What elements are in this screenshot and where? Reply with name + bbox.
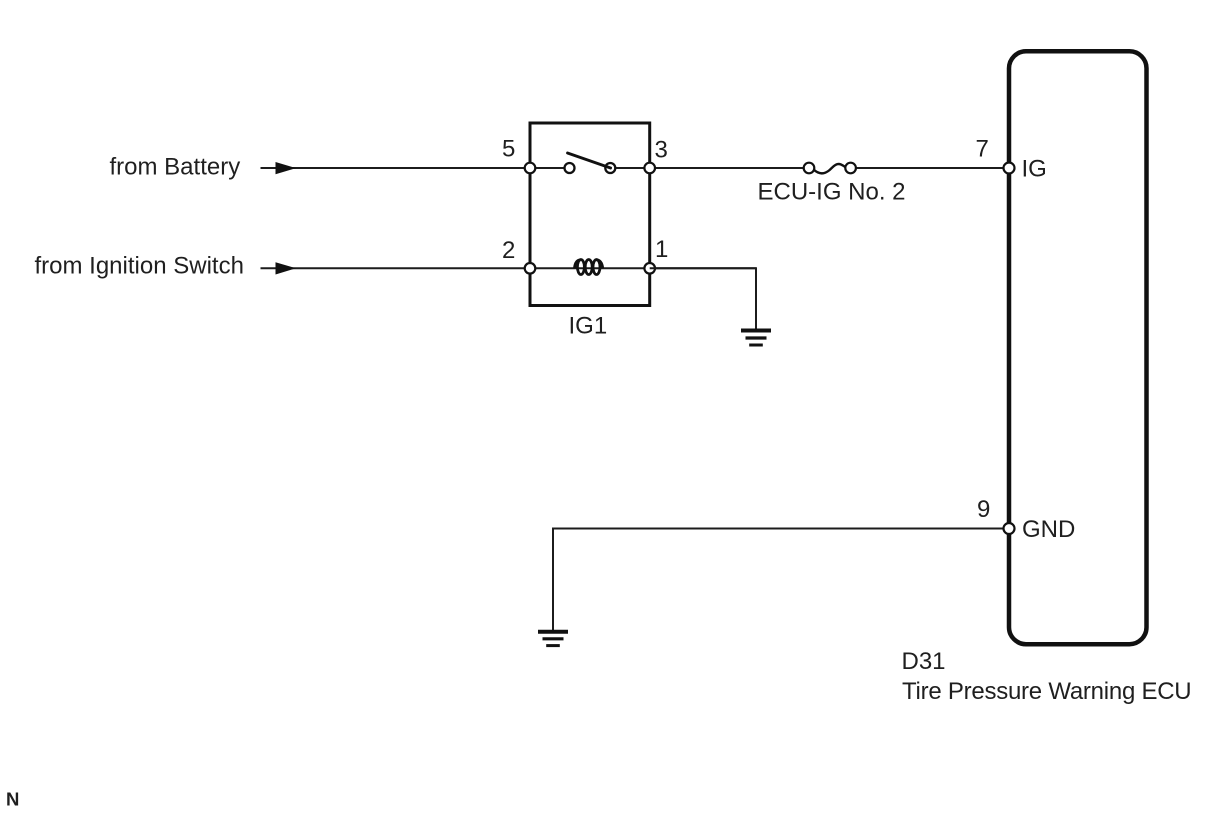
svg-text:7: 7 xyxy=(976,136,989,163)
svg-text:5: 5 xyxy=(502,136,515,163)
wire ECU pin 9 GND to ground xyxy=(553,529,1009,631)
wire from Ignition Switch to relay pin 2 xyxy=(261,267,757,269)
relay IG1 box xyxy=(530,123,650,306)
svg-text:N: N xyxy=(6,789,19,810)
wire pin1 to ground xyxy=(650,268,756,330)
relay pin 5 xyxy=(525,163,536,174)
svg-text:IG: IG xyxy=(1022,156,1047,183)
fuse ECU-IG No. 2 xyxy=(804,163,856,174)
relay switch left contact xyxy=(565,163,575,173)
wire from Battery to relay pin 5 xyxy=(261,167,566,169)
ground below GND wire xyxy=(538,632,568,646)
relay pin 3 xyxy=(644,163,655,174)
wire pin3 to fuse xyxy=(610,167,809,169)
relay pin 1 xyxy=(644,263,655,274)
relay coil xyxy=(575,260,603,275)
ECU pin 7 xyxy=(1004,163,1015,174)
svg-text:1: 1 xyxy=(655,236,668,263)
svg-text:from Battery: from Battery xyxy=(110,154,241,181)
arrowhead on ignition wire xyxy=(276,262,297,274)
arrowhead on battery wire xyxy=(276,162,297,174)
svg-text:3: 3 xyxy=(655,137,668,164)
svg-text:D31: D31 xyxy=(902,648,946,675)
relay pin 2 xyxy=(525,263,536,274)
ECU D31 box xyxy=(1009,51,1147,644)
relay switch blade xyxy=(568,153,611,168)
wire fuse to ECU pin 7 xyxy=(851,167,1009,169)
svg-text:ECU-IG No. 2: ECU-IG No. 2 xyxy=(758,179,906,206)
svg-text:IG1: IG1 xyxy=(569,313,608,340)
svg-text:2: 2 xyxy=(502,237,515,264)
svg-text:GND: GND xyxy=(1022,516,1075,543)
svg-text:9: 9 xyxy=(977,496,990,523)
ECU pin 9 xyxy=(1004,523,1015,534)
svg-text:from Ignition Switch: from Ignition Switch xyxy=(35,253,244,280)
relay switch right contact xyxy=(605,163,615,173)
svg-text:Tire Pressure Warning ECU: Tire Pressure Warning ECU xyxy=(902,678,1191,705)
ground below relay pin 1 xyxy=(741,331,771,346)
